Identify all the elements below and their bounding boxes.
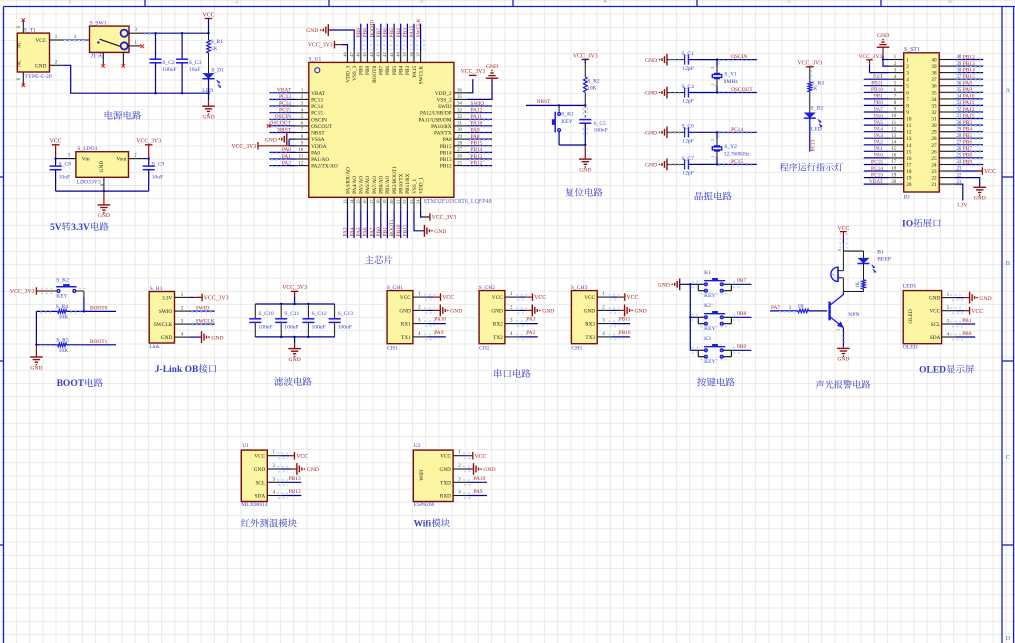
svg-text:100nF: 100nF	[312, 324, 326, 330]
svg-text:PA5/AO: PA5/AO	[359, 176, 365, 194]
svg-text:ESP8266: ESP8266	[414, 502, 435, 508]
svg-text:S_H1: S_H1	[150, 286, 163, 292]
svg-text:PB13: PB13	[963, 61, 975, 67]
svg-text:S_ST1: S_ST1	[904, 47, 920, 53]
svg-text:PA8: PA8	[443, 137, 452, 143]
svg-text:VCC: VCC	[296, 454, 308, 460]
svg-text:TX3: TX3	[585, 335, 595, 341]
svg-text:OSCIN: OSCIN	[731, 54, 747, 60]
svg-text:1K: 1K	[798, 304, 805, 310]
svg-text:31: 31	[931, 117, 937, 123]
svg-text:29: 29	[457, 135, 462, 140]
svg-text:U1: U1	[242, 443, 249, 449]
svg-text:12: 12	[891, 127, 896, 132]
svg-text:PA10: PA10	[471, 121, 483, 127]
svg-text:VCC: VCC	[475, 454, 487, 460]
svg-text:10: 10	[906, 117, 912, 123]
svg-text:47: 47	[349, 51, 354, 56]
svg-text:U2: U2	[414, 443, 421, 449]
svg-text:VBAT: VBAT	[277, 88, 292, 94]
svg-text:PC13: PC13	[279, 94, 291, 100]
svg-text:SDA: SDA	[930, 335, 941, 341]
svg-text:S_K1: S_K1	[561, 112, 574, 118]
svg-text:PB0: PB0	[962, 331, 972, 337]
svg-text:KEY: KEY	[561, 119, 573, 125]
svg-text:PB12: PB12	[471, 160, 483, 166]
svg-text:VCC: VCC	[442, 295, 454, 301]
svg-text:GND: GND	[877, 33, 889, 39]
svg-text:42: 42	[382, 52, 387, 57]
svg-text:PC14: PC14	[871, 166, 883, 172]
svg-text:VCC: VCC	[929, 309, 940, 315]
svg-text:Vout: Vout	[116, 157, 127, 163]
svg-text:J-Link OB: J-Link OB	[155, 365, 199, 375]
svg-text:S_R5: S_R5	[56, 337, 69, 343]
svg-text:RX2: RX2	[493, 322, 503, 328]
svg-text:17: 17	[369, 199, 374, 204]
svg-text:VCC_3V3: VCC_3V3	[308, 43, 333, 49]
svg-text:33: 33	[457, 108, 462, 113]
svg-text:PB14: PB14	[440, 150, 452, 156]
svg-text:BOOT1: BOOT1	[389, 219, 395, 237]
svg-text:10uF: 10uF	[152, 174, 164, 180]
svg-text:31: 31	[457, 122, 462, 127]
svg-text:MLX90614: MLX90614	[241, 502, 268, 508]
svg-text:GND: GND	[584, 308, 596, 314]
svg-text:PA7/AO: PA7/AO	[372, 176, 378, 194]
svg-text:GND: GND	[974, 196, 986, 202]
svg-text:26: 26	[931, 149, 937, 155]
svg-text:VCC: VCC	[203, 12, 215, 18]
svg-text:GND: GND	[658, 283, 670, 289]
svg-text:VCC_3V3: VCC_3V3	[797, 61, 822, 67]
svg-text:CH1: CH1	[387, 346, 398, 352]
svg-text:VCC_3V3: VCC_3V3	[282, 285, 307, 291]
svg-text:PA9: PA9	[471, 127, 480, 133]
svg-text:21: 21	[931, 182, 937, 188]
svg-text:GND: GND	[30, 365, 42, 371]
svg-text:VCC: VCC	[584, 295, 595, 301]
svg-text:46: 46	[356, 51, 361, 56]
svg-text:PC15: PC15	[279, 108, 291, 114]
svg-text:D: D	[1006, 635, 1011, 642]
svg-text:GND: GND	[635, 309, 647, 315]
svg-text:S_C13: S_C13	[338, 311, 353, 317]
svg-text:RX1: RX1	[401, 322, 411, 328]
svg-text:VDD_3: VDD_3	[345, 65, 351, 82]
svg-text:PA10/RX: PA10/RX	[431, 124, 452, 130]
svg-text:PA9/TX: PA9/TX	[434, 131, 452, 137]
svg-text:14: 14	[891, 141, 896, 146]
svg-text:VCC_3V3: VCC_3V3	[136, 139, 161, 145]
svg-text:PA5: PA5	[356, 227, 362, 236]
svg-text:21: 21	[396, 200, 401, 205]
svg-text:PA10: PA10	[963, 94, 975, 100]
svg-text:PB11: PB11	[871, 81, 883, 87]
svg-text:17: 17	[906, 163, 912, 169]
svg-text:23: 23	[931, 169, 937, 175]
svg-text:10: 10	[891, 114, 896, 119]
svg-text:1K: 1K	[811, 86, 818, 92]
svg-text:PB7: PB7	[379, 65, 385, 74]
svg-text:VSS_2: VSS_2	[437, 97, 452, 103]
svg-text:S_CH2: S_CH2	[479, 285, 496, 291]
svg-text:BOOT: BOOT	[57, 379, 85, 389]
svg-text:38: 38	[931, 71, 937, 77]
svg-text:41: 41	[389, 52, 394, 57]
svg-text:SWCLK: SWCLK	[196, 318, 215, 324]
svg-text:100nF: 100nF	[338, 324, 352, 330]
svg-text:NRST: NRST	[537, 99, 551, 105]
svg-text:PB6: PB6	[385, 65, 391, 74]
svg-text:GND: GND	[645, 91, 657, 97]
svg-text:S_R4: S_R4	[56, 304, 69, 310]
svg-text:VCC_3V3: VCC_3V3	[573, 53, 598, 59]
svg-text:NC: NC	[17, 40, 23, 48]
svg-text:RXD: RXD	[440, 494, 451, 500]
svg-text:12pF: 12pF	[682, 66, 694, 72]
svg-text:GND: GND	[434, 229, 446, 235]
svg-text:SWIO: SWIO	[471, 101, 485, 107]
svg-text:19: 19	[891, 173, 896, 178]
svg-text:VCC_3V3: VCC_3V3	[461, 69, 486, 75]
svg-text:GND: GND	[306, 28, 318, 34]
svg-text:S_C8: S_C8	[59, 161, 72, 167]
svg-text:S_C10: S_C10	[258, 311, 273, 317]
svg-text:GND: GND	[929, 296, 941, 302]
svg-text:S_D2: S_D2	[811, 106, 824, 112]
svg-text:13: 13	[891, 134, 896, 139]
svg-text:16: 16	[906, 156, 912, 162]
svg-text:PA4/AO: PA4/AO	[352, 176, 358, 194]
svg-text:20: 20	[906, 182, 912, 188]
svg-text:S_CH3: S_CH3	[571, 285, 588, 291]
svg-text:11: 11	[299, 155, 304, 160]
svg-text:PB1: PB1	[962, 318, 972, 324]
svg-text:34: 34	[457, 102, 462, 107]
svg-text:NRST: NRST	[277, 127, 291, 133]
svg-text:9: 9	[906, 110, 909, 116]
svg-text:PB10: PB10	[871, 87, 883, 93]
svg-text:26: 26	[457, 155, 462, 160]
svg-text:PA2: PA2	[526, 330, 535, 336]
svg-text:VCC: VCC	[254, 454, 265, 460]
svg-text:40: 40	[931, 58, 937, 64]
svg-text:12pF: 12pF	[682, 171, 694, 177]
svg-text:13: 13	[906, 136, 912, 142]
svg-text:VCC_3V3: VCC_3V3	[432, 215, 457, 221]
svg-text:S_CH1: S_CH1	[387, 285, 404, 291]
svg-text:2: 2	[235, 0, 238, 5]
svg-text:GND: GND	[211, 335, 223, 341]
svg-text:S_SW1: S_SW1	[90, 21, 107, 27]
svg-text:A: A	[1006, 87, 1011, 94]
svg-text:30: 30	[457, 128, 462, 133]
svg-text:28: 28	[931, 136, 937, 142]
svg-text:8: 8	[906, 103, 909, 109]
svg-text:VCC: VCC	[971, 309, 983, 315]
svg-text:25: 25	[931, 156, 937, 162]
svg-text:PB12: PB12	[440, 164, 452, 170]
svg-text:PB11: PB11	[619, 317, 631, 323]
svg-text:1K: 1K	[211, 46, 218, 52]
svg-text:2: 2	[906, 64, 909, 70]
svg-text:Vin: Vin	[82, 157, 90, 163]
svg-text:27: 27	[457, 148, 462, 153]
svg-text:S_U1: S_U1	[309, 57, 322, 63]
svg-text:OSCOUT: OSCOUT	[311, 124, 333, 130]
svg-text:10K: 10K	[59, 348, 69, 354]
svg-text:18: 18	[906, 169, 912, 175]
svg-text:S_C5: S_C5	[594, 121, 607, 127]
svg-text:PA3/RX/AO: PA3/RX/AO	[345, 167, 351, 194]
svg-text:VCC: VCC	[50, 139, 62, 145]
svg-text:VBAT: VBAT	[869, 179, 884, 185]
svg-text:18: 18	[376, 199, 381, 204]
svg-text:22: 22	[402, 200, 407, 205]
svg-text:18: 18	[891, 167, 896, 172]
svg-text:GND: GND	[307, 467, 319, 473]
svg-text:5V: 5V	[50, 223, 62, 233]
svg-text:PA1: PA1	[282, 154, 291, 160]
svg-text:PB9: PB9	[359, 65, 365, 74]
svg-text:S_C1: S_C1	[682, 51, 695, 57]
svg-text:PB9: PB9	[963, 159, 973, 165]
svg-text:PB13: PB13	[440, 157, 452, 163]
svg-text:GND: GND	[486, 64, 498, 70]
svg-text:GND: GND	[161, 335, 173, 341]
svg-text:VDD_1: VDD_1	[418, 177, 424, 194]
svg-text:S_C6: S_C6	[682, 124, 695, 130]
svg-text:PC14: PC14	[311, 104, 323, 110]
svg-text:OSCIN: OSCIN	[275, 114, 291, 120]
svg-text:NC: NC	[17, 59, 23, 67]
svg-text:20: 20	[891, 180, 896, 185]
svg-text:GND: GND	[542, 309, 554, 315]
svg-text:10K: 10K	[587, 85, 597, 91]
svg-text:VCC: VCC	[35, 38, 46, 44]
svg-text:PA10: PA10	[474, 476, 486, 482]
svg-text:PB6: PB6	[383, 28, 389, 38]
svg-text:39: 39	[931, 64, 937, 70]
svg-text:11: 11	[906, 123, 911, 129]
svg-text:24: 24	[415, 199, 420, 204]
svg-text:BOOT0: BOOT0	[372, 65, 378, 82]
svg-text:PB0/AO: PB0/AO	[379, 175, 385, 193]
svg-text:GND: GND	[579, 167, 591, 173]
svg-text:PA15: PA15	[412, 65, 418, 77]
svg-text:25: 25	[457, 161, 462, 166]
svg-text:PB3: PB3	[403, 28, 409, 38]
svg-text:B1: B1	[877, 250, 884, 256]
svg-text:10uF: 10uF	[59, 174, 71, 180]
svg-text:OSCOUT: OSCOUT	[731, 87, 753, 93]
svg-text:C: C	[1006, 454, 1010, 461]
svg-text:S_K2: S_K2	[56, 277, 69, 283]
svg-text:VCC_3V3: VCC_3V3	[10, 289, 35, 295]
svg-text:35: 35	[457, 95, 462, 100]
svg-text:PB3: PB3	[963, 120, 973, 126]
svg-text:13: 13	[342, 199, 347, 204]
svg-text:14: 14	[906, 143, 912, 149]
svg-text:PB0: PB0	[376, 227, 382, 237]
svg-text:PA11: PA11	[471, 114, 483, 120]
svg-text:GND: GND	[399, 308, 411, 314]
svg-text:VDDA: VDDA	[311, 144, 326, 150]
svg-text:PB7: PB7	[376, 28, 382, 38]
svg-text:40: 40	[396, 51, 401, 56]
svg-text:CH2: CH2	[479, 346, 490, 352]
svg-text:37: 37	[415, 51, 420, 56]
svg-text:3.3V: 3.3V	[71, 223, 90, 233]
svg-text:RX3: RX3	[585, 322, 595, 328]
svg-text:VCC: VCC	[984, 169, 996, 175]
svg-text:100nF: 100nF	[284, 324, 298, 330]
svg-text:TX1: TX1	[401, 335, 411, 341]
svg-text:38: 38	[409, 51, 414, 56]
svg-text:PA9: PA9	[434, 330, 443, 336]
svg-text:PB11/RX: PB11/RX	[405, 173, 411, 194]
svg-text:GND: GND	[440, 467, 452, 473]
svg-text:KEY: KEY	[56, 293, 67, 299]
svg-text:PB15: PB15	[471, 141, 483, 147]
svg-text:OLED: OLED	[903, 344, 918, 350]
svg-text:+: +	[832, 273, 835, 279]
svg-text:1: 1	[906, 58, 909, 64]
svg-text:VBAT: VBAT	[311, 91, 326, 97]
svg-text:S_C7: S_C7	[682, 156, 695, 162]
svg-text:BOOT0: BOOT0	[90, 305, 108, 311]
svg-text:PA0: PA0	[282, 147, 291, 153]
svg-text:PB10: PB10	[619, 330, 631, 336]
svg-text:29: 29	[931, 130, 937, 136]
svg-text:23: 23	[409, 199, 414, 204]
svg-text:VSSA: VSSA	[311, 137, 325, 143]
svg-text:28: 28	[457, 142, 462, 147]
svg-text:GND: GND	[837, 357, 849, 363]
svg-text:3.3V: 3.3V	[162, 295, 173, 301]
svg-text:S_C9: S_C9	[152, 161, 165, 167]
svg-text:S_D1: S_D1	[211, 68, 224, 74]
svg-text:10K: 10K	[59, 315, 69, 321]
svg-text:1: 1	[711, 156, 715, 158]
svg-text:19: 19	[906, 176, 912, 182]
svg-text:PA2/TX/AO: PA2/TX/AO	[311, 164, 338, 170]
svg-text:43: 43	[376, 51, 381, 56]
svg-text:12pF: 12pF	[682, 99, 694, 105]
svg-text:PA3: PA3	[343, 227, 349, 236]
svg-text:SCL: SCL	[255, 480, 265, 486]
svg-text:32: 32	[457, 115, 462, 120]
svg-text:S_R2: S_R2	[587, 78, 600, 84]
svg-text:39: 39	[402, 51, 407, 56]
svg-text:S_C2: S_C2	[162, 60, 175, 66]
svg-text:PA12: PA12	[963, 107, 975, 113]
svg-text:PA7: PA7	[369, 227, 375, 236]
svg-text:PB9: PB9	[356, 28, 362, 38]
svg-text:PB13: PB13	[289, 476, 301, 482]
svg-text:22: 22	[931, 176, 937, 182]
svg-text:BOOT0: BOOT0	[369, 20, 375, 38]
svg-text:PC15: PC15	[871, 159, 883, 165]
svg-text:SWIO: SWIO	[196, 305, 210, 311]
svg-text:44: 44	[369, 51, 374, 56]
svg-text:SWCLK: SWCLK	[418, 66, 424, 85]
svg-text:OLED: OLED	[908, 309, 914, 323]
svg-text:PA2: PA2	[282, 160, 291, 166]
svg-text:7: 7	[906, 97, 909, 103]
svg-text:2: 2	[711, 66, 715, 68]
svg-text:S_Y2: S_Y2	[724, 144, 737, 150]
svg-text:SWIO: SWIO	[159, 309, 173, 315]
svg-text:14: 14	[349, 199, 354, 204]
svg-text:PA1/AO: PA1/AO	[311, 157, 329, 163]
svg-text:15: 15	[356, 199, 361, 204]
svg-text:GND: GND	[98, 213, 110, 219]
svg-text:PB8: PB8	[365, 65, 371, 74]
svg-text:PB14: PB14	[963, 67, 975, 73]
svg-text:PB6: PB6	[963, 140, 973, 146]
svg-text:VCC_3V3: VCC_3V3	[858, 54, 882, 60]
svg-text:CH3: CH3	[571, 346, 582, 352]
svg-text:PA15: PA15	[963, 113, 975, 119]
svg-text:LED1: LED1	[903, 284, 917, 290]
svg-text:S_C3: S_C3	[189, 60, 202, 66]
svg-text:27: 27	[931, 143, 937, 149]
svg-text:S_LDO1: S_LDO1	[77, 146, 97, 152]
svg-text:BOOT1: BOOT1	[90, 339, 108, 345]
svg-text:36: 36	[457, 89, 462, 94]
svg-text:LED: LED	[811, 127, 822, 133]
svg-text:SDA: SDA	[255, 494, 266, 500]
svg-text:Wifi: Wifi	[414, 519, 432, 529]
svg-text:2: 2	[711, 139, 715, 141]
svg-text:PB10/TX: PB10/TX	[399, 173, 405, 193]
svg-text:GND: GND	[35, 63, 47, 69]
svg-text:8MHz: 8MHz	[724, 79, 739, 85]
svg-text:PA7: PA7	[771, 305, 780, 311]
svg-text:17: 17	[891, 160, 896, 165]
svg-text:GND: GND	[289, 357, 301, 363]
svg-text:K3: K3	[704, 336, 711, 342]
svg-text:GND: GND	[254, 467, 266, 473]
svg-text:OLED: OLED	[919, 366, 946, 376]
svg-text:1: 1	[711, 83, 715, 85]
svg-text:35: 35	[931, 90, 937, 96]
svg-text:5: 5	[787, 0, 790, 5]
svg-text:OSCIN: OSCIN	[311, 117, 327, 123]
svg-text:VCC: VCC	[534, 295, 546, 301]
svg-text:PA4: PA4	[349, 227, 355, 236]
svg-text:PB5: PB5	[963, 133, 973, 139]
svg-text:SCL: SCL	[931, 322, 941, 328]
svg-text:PA12/USB/DP: PA12/USB/DP	[420, 111, 452, 117]
svg-text:BEEP: BEEP	[877, 256, 891, 262]
svg-text:PB8: PB8	[963, 153, 973, 159]
svg-text:45: 45	[362, 51, 367, 56]
svg-text:3: 3	[906, 71, 909, 77]
svg-text:100nF: 100nF	[594, 128, 608, 134]
svg-text:NRST: NRST	[311, 131, 325, 137]
svg-text:PC15: PC15	[311, 111, 323, 117]
svg-text:48: 48	[342, 51, 347, 56]
svg-text:TXD: TXD	[440, 480, 451, 486]
svg-text:PB4: PB4	[396, 28, 402, 38]
svg-text:VSS_3: VSS_3	[352, 65, 358, 80]
svg-text:PC13: PC13	[811, 139, 817, 151]
svg-text:PA9: PA9	[963, 87, 972, 93]
svg-text:SWCLK: SWCLK	[416, 19, 422, 38]
